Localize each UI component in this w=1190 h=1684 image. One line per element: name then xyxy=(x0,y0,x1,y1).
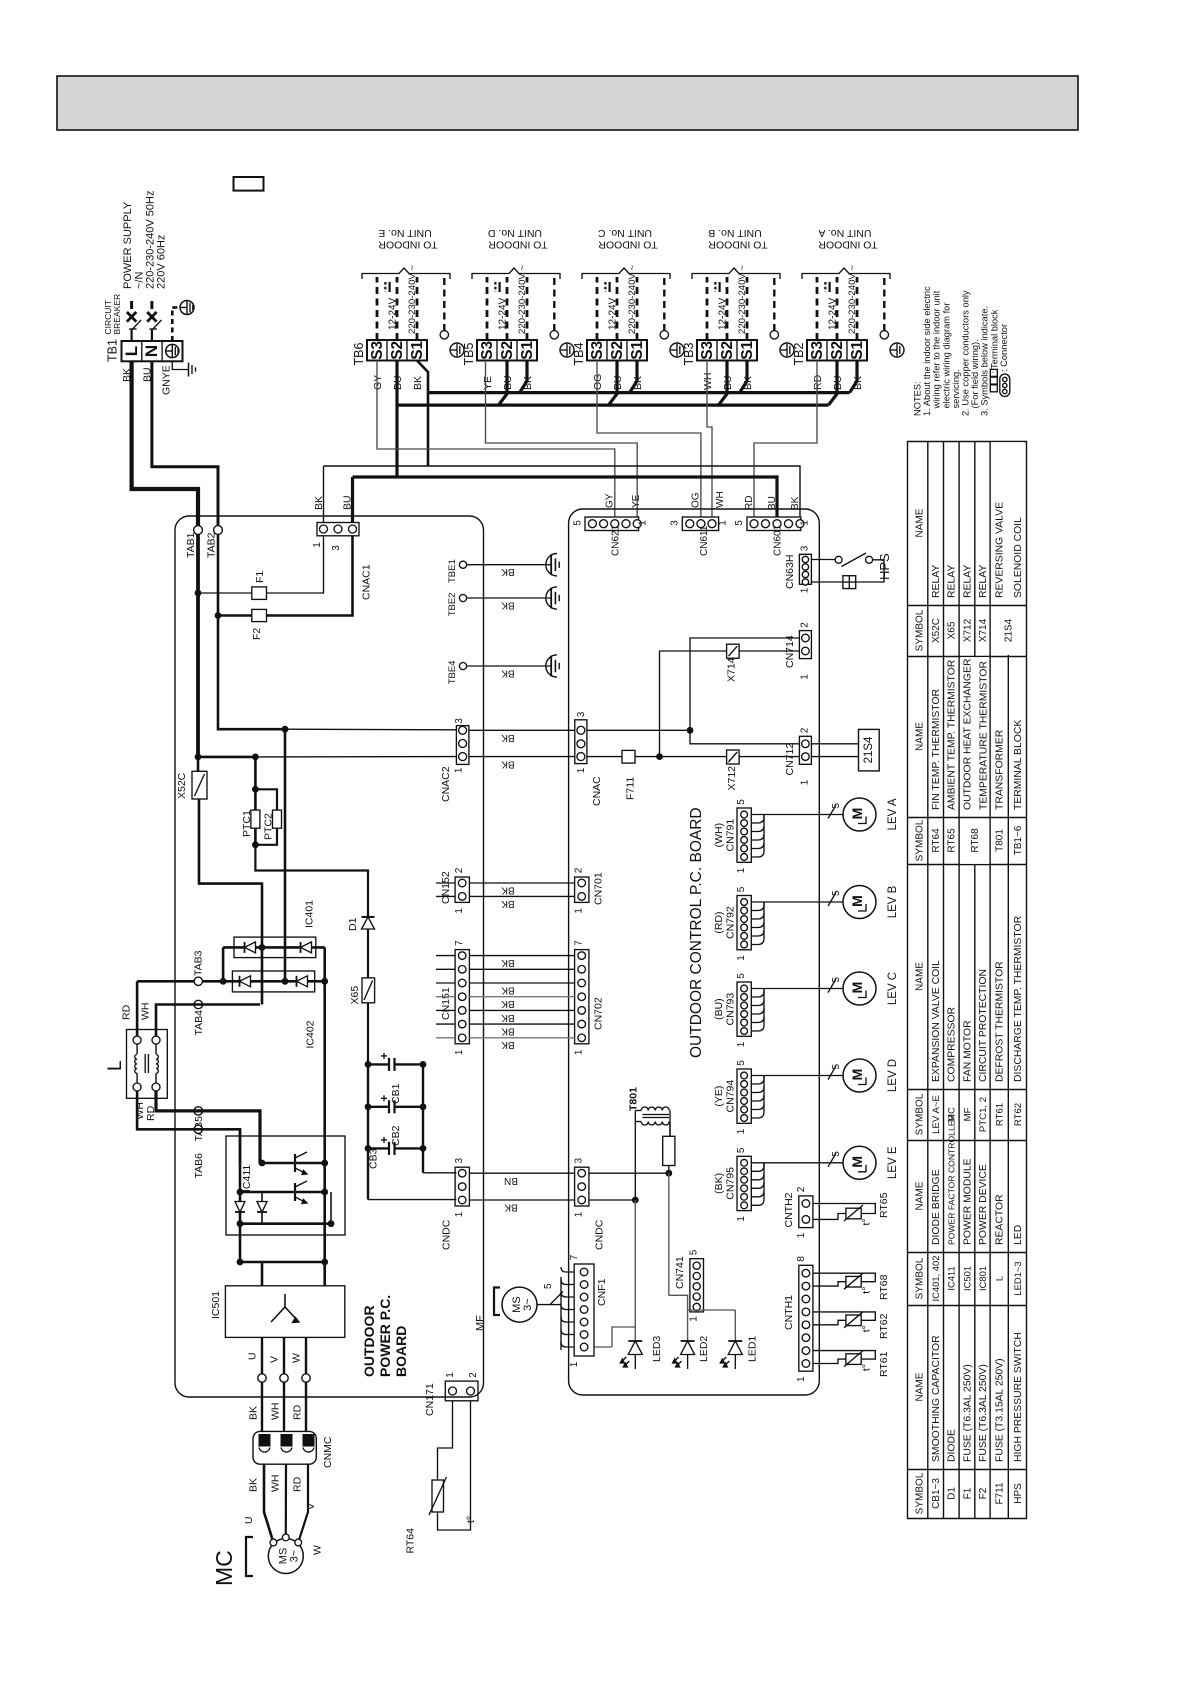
svg-text:RT62: RT62 xyxy=(1013,1103,1024,1126)
svg-text:OG: OG xyxy=(691,492,702,508)
svg-text:IC501: IC501 xyxy=(961,1266,972,1291)
svg-text:CN151: CN151 xyxy=(440,987,452,1020)
svg-text:LEV D: LEV D xyxy=(887,1059,899,1092)
svg-text:BK: BK xyxy=(121,368,133,382)
svg-text:LEV B: LEV B xyxy=(887,885,899,918)
svg-text:SYMBOL: SYMBOL xyxy=(915,1472,926,1514)
svg-text:S1: S1 xyxy=(849,340,866,359)
svg-text:BK: BK xyxy=(504,1201,518,1212)
svg-text:t°: t° xyxy=(861,1325,873,1332)
svg-text:TB5: TB5 xyxy=(462,343,476,366)
svg-text:IC402: IC402 xyxy=(305,1020,317,1048)
svg-text:OUTDOOR: OUTDOOR xyxy=(361,1305,377,1377)
svg-text:TBE2: TBE2 xyxy=(447,593,458,617)
svg-text:5: 5 xyxy=(831,977,842,983)
svg-text:220-230-240V ~: 220-230-240V ~ xyxy=(517,265,528,334)
svg-text:S1: S1 xyxy=(409,340,426,359)
svg-text:CNMC: CNMC xyxy=(322,1436,334,1468)
svg-text:21S4: 21S4 xyxy=(1004,618,1015,642)
svg-text:RELAY: RELAY xyxy=(962,565,973,598)
svg-text:220-230-240V ~: 220-230-240V ~ xyxy=(847,265,858,334)
svg-text:RT64: RT64 xyxy=(931,828,942,853)
svg-text:BK: BK xyxy=(501,1039,515,1050)
svg-text:RT62: RT62 xyxy=(878,1313,890,1339)
svg-text:TAB1: TAB1 xyxy=(185,532,197,558)
svg-text:NAME: NAME xyxy=(915,1181,926,1210)
svg-text:X52C: X52C xyxy=(176,772,188,799)
svg-text:BK: BK xyxy=(501,984,515,995)
svg-text:RT65: RT65 xyxy=(878,1192,890,1218)
svg-text:MF: MF xyxy=(962,1107,973,1121)
svg-text:: Terminal block: : Terminal block xyxy=(989,309,999,374)
svg-text:1: 1 xyxy=(736,867,747,873)
svg-text:SYMBOL: SYMBOL xyxy=(915,819,926,861)
svg-text:RELAY: RELAY xyxy=(931,565,942,598)
svg-text:1: 1 xyxy=(736,1128,747,1134)
svg-text:CIRCUIT PROTECTION: CIRCUIT PROTECTION xyxy=(978,969,989,1082)
svg-text:7: 7 xyxy=(574,940,585,946)
svg-text:5: 5 xyxy=(831,890,842,896)
svg-text:2: 2 xyxy=(468,1372,479,1378)
svg-text:1: 1 xyxy=(800,587,811,593)
svg-text:1: 1 xyxy=(800,779,811,785)
svg-text:CNF1: CNF1 xyxy=(596,1278,608,1306)
svg-text:U: U xyxy=(247,1352,259,1360)
svg-text:F1: F1 xyxy=(962,1487,973,1499)
svg-text:S2: S2 xyxy=(719,341,736,360)
svg-text:t°: t° xyxy=(861,1364,873,1371)
svg-text:BK: BK xyxy=(248,1478,260,1492)
svg-text:X712: X712 xyxy=(726,766,738,791)
svg-text:SMOOTHING CAPACITOR: SMOOTHING CAPACITOR xyxy=(931,1335,942,1462)
svg-text:RELAY: RELAY xyxy=(978,565,989,598)
svg-text:t°: t° xyxy=(861,1287,873,1294)
svg-text:1: 1 xyxy=(574,1211,585,1217)
svg-text:1: 1 xyxy=(800,674,811,680)
svg-text:SYMBOL: SYMBOL xyxy=(915,609,926,651)
svg-text:F711: F711 xyxy=(995,1482,1006,1504)
svg-text:220-230-240V ~: 220-230-240V ~ xyxy=(737,265,748,334)
svg-text:GNYE: GNYE xyxy=(161,365,173,395)
svg-text:IC411: IC411 xyxy=(946,1266,957,1290)
svg-text:PTC1: PTC1 xyxy=(241,810,253,837)
svg-text:RT68: RT68 xyxy=(970,828,981,853)
svg-text:FIN TEMP. THERMISTOR: FIN TEMP. THERMISTOR xyxy=(931,688,942,810)
svg-text:LED1: LED1 xyxy=(747,1336,759,1362)
svg-text:3: 3 xyxy=(670,520,681,526)
svg-text:NAME: NAME xyxy=(915,508,926,537)
svg-text:X712: X712 xyxy=(962,618,973,642)
svg-text:TB2: TB2 xyxy=(792,343,806,366)
svg-text:CNTH1: CNTH1 xyxy=(783,1295,795,1330)
svg-text:RD: RD xyxy=(812,374,824,390)
svg-text:TB1~6: TB1~6 xyxy=(1013,825,1024,855)
svg-text:CB3: CB3 xyxy=(368,1148,380,1169)
svg-text:TAB2: TAB2 xyxy=(206,532,218,558)
svg-text:CN792: CN792 xyxy=(725,906,737,939)
svg-text:BK: BK xyxy=(501,599,515,610)
svg-text:servicing.: servicing. xyxy=(951,369,961,408)
svg-text:3. Symbols below indicate.: 3. Symbols below indicate. xyxy=(980,306,990,416)
svg-text:S1: S1 xyxy=(519,340,536,359)
svg-text:WH: WH xyxy=(702,373,714,391)
svg-text:220-230-240V ~: 220-230-240V ~ xyxy=(627,265,638,334)
svg-text:3: 3 xyxy=(800,545,811,551)
svg-text:2. Use copper conductors only: 2. Use copper conductors only xyxy=(961,290,971,416)
svg-text:TO INDOOR: TO INDOOR xyxy=(488,239,548,251)
svg-text:CN793: CN793 xyxy=(725,993,737,1026)
svg-text:(For field wiring).: (For field wiring). xyxy=(970,339,980,408)
svg-text:LED3: LED3 xyxy=(651,1336,663,1362)
svg-text:DIODE BRIDGE: DIODE BRIDGE xyxy=(931,1169,942,1245)
svg-text:2: 2 xyxy=(574,867,585,873)
svg-text:V: V xyxy=(269,1356,281,1363)
svg-text:RD: RD xyxy=(744,496,755,510)
svg-text:TB4: TB4 xyxy=(572,343,586,366)
svg-text:3: 3 xyxy=(454,718,465,724)
svg-text:1: 1 xyxy=(796,1376,807,1382)
svg-text:NAME: NAME xyxy=(915,962,926,991)
svg-text:BU: BU xyxy=(142,367,154,382)
svg-text:S3: S3 xyxy=(699,340,716,359)
svg-text:BU: BU xyxy=(767,496,778,510)
svg-text:CNDC: CNDC xyxy=(441,1219,453,1250)
svg-text:S1: S1 xyxy=(629,340,646,359)
svg-text:X714: X714 xyxy=(978,618,989,642)
svg-text:PTC1, 2: PTC1, 2 xyxy=(978,1097,989,1132)
svg-text:2: 2 xyxy=(800,727,811,733)
svg-text:12-24V: 12-24V xyxy=(497,297,508,330)
svg-text:1: 1 xyxy=(796,1232,807,1238)
svg-text:F2: F2 xyxy=(251,628,263,640)
svg-text:IC501: IC501 xyxy=(210,1291,222,1319)
svg-text:RELAY: RELAY xyxy=(947,565,958,598)
svg-text:CNDC: CNDC xyxy=(594,1219,606,1250)
svg-text:S1: S1 xyxy=(739,340,756,359)
svg-text:: Connector: : Connector xyxy=(999,324,1009,372)
svg-text:TAB6: TAB6 xyxy=(193,1153,205,1179)
svg-text:F711: F711 xyxy=(625,777,637,800)
svg-text:RT68: RT68 xyxy=(878,1274,890,1300)
svg-text:PTC2: PTC2 xyxy=(263,813,275,840)
svg-text:RT64: RT64 xyxy=(405,1528,417,1554)
svg-text:X65: X65 xyxy=(349,986,361,1005)
svg-text:BK: BK xyxy=(501,957,515,968)
svg-text:REACTOR: REACTOR xyxy=(995,1194,1006,1245)
svg-text:LEV E: LEV E xyxy=(887,1146,899,1179)
svg-text:GY: GY xyxy=(605,493,616,508)
svg-text:3~: 3~ xyxy=(289,1550,301,1563)
svg-text:1: 1 xyxy=(454,767,465,773)
svg-text:UNIT No. D: UNIT No. D xyxy=(488,227,542,239)
svg-text:DIODE: DIODE xyxy=(947,1429,958,1462)
svg-text:1: 1 xyxy=(445,1372,456,1378)
svg-text:HPS: HPS xyxy=(1013,1483,1024,1504)
svg-text:12-24V: 12-24V xyxy=(717,297,728,330)
svg-text:S3: S3 xyxy=(369,340,386,359)
svg-text:BK: BK xyxy=(501,667,515,678)
svg-text:POWER P.C.: POWER P.C. xyxy=(377,1295,393,1377)
svg-text:BN: BN xyxy=(504,1175,518,1186)
svg-text:BK: BK xyxy=(501,998,515,1009)
svg-text:T801: T801 xyxy=(995,829,1006,852)
svg-text:5: 5 xyxy=(831,1064,842,1070)
svg-text:5: 5 xyxy=(736,886,747,892)
svg-text:DEFROST THERMISTOR: DEFROST THERMISTOR xyxy=(995,961,1006,1082)
svg-text:M: M xyxy=(849,982,865,994)
svg-text:UNIT No. C: UNIT No. C xyxy=(598,227,652,239)
svg-text:3: 3 xyxy=(454,1157,465,1163)
svg-text:MF: MF xyxy=(475,1315,487,1331)
svg-text:S2: S2 xyxy=(609,341,626,360)
svg-text:IC801: IC801 xyxy=(977,1266,988,1291)
svg-text:5: 5 xyxy=(543,1283,554,1289)
svg-text:W: W xyxy=(312,1545,324,1555)
svg-text:REVERSING VALVE: REVERSING VALVE xyxy=(995,502,1006,598)
svg-text:12-24V: 12-24V xyxy=(387,297,398,330)
svg-text:FUSE (T6.3AL 250V): FUSE (T6.3AL 250V) xyxy=(962,1364,973,1462)
svg-text:S3: S3 xyxy=(809,340,826,359)
svg-text:TO INDOOR: TO INDOOR xyxy=(598,239,658,251)
svg-text:GY: GY xyxy=(372,375,384,390)
svg-text:1: 1 xyxy=(576,767,587,773)
svg-text:FUSE (T3.15AL 250V): FUSE (T3.15AL 250V) xyxy=(995,1358,1006,1462)
svg-text:CN702: CN702 xyxy=(593,997,605,1030)
svg-text:TB1: TB1 xyxy=(106,339,120,362)
svg-text:BREAKER: BREAKER xyxy=(112,294,122,335)
svg-text:LED: LED xyxy=(1013,1225,1024,1245)
svg-text:IC411: IC411 xyxy=(241,1165,253,1192)
svg-text:1: 1 xyxy=(718,520,729,526)
svg-text:BOARD: BOARD xyxy=(393,1326,409,1377)
svg-text:7: 7 xyxy=(569,1254,580,1260)
svg-text:RD: RD xyxy=(145,1105,157,1121)
svg-text:CN701: CN701 xyxy=(593,872,605,905)
svg-text:5: 5 xyxy=(689,1249,700,1255)
svg-text:RD: RD xyxy=(292,1404,304,1420)
svg-text:t°: t° xyxy=(861,1218,873,1225)
svg-text:5: 5 xyxy=(831,1151,842,1157)
svg-text:2: 2 xyxy=(800,622,811,628)
svg-text:12-24V: 12-24V xyxy=(607,297,618,330)
svg-text:WH: WH xyxy=(140,1003,152,1021)
svg-text:BU: BU xyxy=(342,495,354,510)
svg-text:5: 5 xyxy=(736,973,747,979)
svg-text:(BK): (BK) xyxy=(713,1173,725,1194)
svg-text:5: 5 xyxy=(734,520,745,526)
svg-text:IC401: IC401 xyxy=(304,900,316,928)
svg-text:CN611: CN611 xyxy=(699,525,710,556)
svg-text:D1: D1 xyxy=(947,1487,958,1500)
svg-text:2: 2 xyxy=(454,867,465,873)
svg-text:21S4: 21S4 xyxy=(863,736,875,763)
svg-text:L: L xyxy=(122,346,141,356)
svg-text:X65: X65 xyxy=(947,621,958,639)
svg-text:POWER SUPPLY: POWER SUPPLY xyxy=(122,201,134,289)
svg-text:NOTES:: NOTES: xyxy=(913,381,923,416)
svg-text:BK: BK xyxy=(501,566,515,577)
svg-text:NAME: NAME xyxy=(915,722,926,751)
svg-text:DISCHARGE TEMP. THERMISTOR: DISCHARGE TEMP. THERMISTOR xyxy=(1013,915,1024,1082)
svg-text:1: 1 xyxy=(638,520,649,526)
svg-text:V: V xyxy=(305,1503,317,1510)
svg-text:M: M xyxy=(849,1156,865,1168)
svg-text:1: 1 xyxy=(569,1361,580,1367)
svg-text:BK: BK xyxy=(501,884,515,895)
svg-text:12-24V: 12-24V xyxy=(827,297,838,330)
svg-text:CN791: CN791 xyxy=(725,819,737,852)
svg-text:RT65: RT65 xyxy=(947,828,958,853)
svg-text:L: L xyxy=(105,1060,126,1071)
svg-text:CN741: CN741 xyxy=(674,1256,686,1289)
svg-text:S2: S2 xyxy=(389,341,406,360)
svg-text:wiring refer to the indoor uni: wiring refer to the indoor unit xyxy=(932,290,942,409)
svg-text:OUTDOOR HEAT EXCHANGER: OUTDOOR HEAT EXCHANGER xyxy=(963,658,974,810)
svg-text:3: 3 xyxy=(576,711,587,717)
svg-text:EXPANSION VALVE COIL: EXPANSION VALVE COIL xyxy=(931,960,942,1082)
svg-text:BK: BK xyxy=(501,1025,515,1036)
svg-text:CN601: CN601 xyxy=(773,524,784,556)
svg-text:CNAC1: CNAC1 xyxy=(361,564,373,600)
svg-text:RD: RD xyxy=(292,1476,304,1492)
svg-text:X52C: X52C xyxy=(931,618,942,643)
svg-text:8: 8 xyxy=(796,1256,807,1262)
svg-text:CB1: CB1 xyxy=(390,1083,402,1104)
svg-text:3~: 3~ xyxy=(522,1298,534,1311)
svg-text:TBE1: TBE1 xyxy=(447,559,458,583)
svg-text:220V 60Hz: 220V 60Hz xyxy=(156,235,168,289)
svg-text:S2: S2 xyxy=(499,341,516,360)
svg-text:BK: BK xyxy=(501,1012,515,1023)
svg-text:TO INDOOR: TO INDOOR xyxy=(378,239,438,251)
svg-text:CN712: CN712 xyxy=(784,743,796,776)
svg-text:FAN MOTOR: FAN MOTOR xyxy=(962,1020,973,1082)
svg-text:UNIT No. B: UNIT No. B xyxy=(708,227,761,239)
svg-text:SYMBOL: SYMBOL xyxy=(915,1093,926,1135)
svg-text:F1: F1 xyxy=(254,571,266,583)
svg-text:RT61: RT61 xyxy=(878,1351,890,1377)
svg-text:UNIT No. A: UNIT No. A xyxy=(819,227,872,239)
svg-text:2: 2 xyxy=(796,1186,807,1192)
svg-text:X714: X714 xyxy=(726,657,738,682)
svg-text:1: 1 xyxy=(736,1041,747,1047)
svg-text:1. About the indoor side elect: 1. About the indoor side electric xyxy=(922,286,932,416)
svg-text:1: 1 xyxy=(689,1316,700,1322)
svg-text:LEV C: LEV C xyxy=(887,972,899,1005)
svg-text:OG: OG xyxy=(592,374,604,390)
svg-text:W: W xyxy=(291,1353,303,1363)
svg-text:M: M xyxy=(849,808,865,820)
svg-text:1: 1 xyxy=(574,908,585,914)
svg-text:TEMPERATURE THERMISTOR: TEMPERATURE THERMISTOR xyxy=(978,661,989,810)
svg-text:N: N xyxy=(142,345,161,357)
svg-text:5: 5 xyxy=(736,799,747,805)
svg-text:1: 1 xyxy=(800,520,811,526)
svg-text:(BU): (BU) xyxy=(713,998,725,1020)
svg-text:1: 1 xyxy=(574,1049,585,1055)
svg-text:1: 1 xyxy=(454,908,465,914)
svg-text:OUTDOOR CONTROL P.C. BOARD: OUTDOOR CONTROL P.C. BOARD xyxy=(688,807,705,1058)
svg-text:TRANSFORMER: TRANSFORMER xyxy=(995,729,1006,810)
svg-text:CN621: CN621 xyxy=(611,524,622,556)
svg-text:WH: WH xyxy=(270,1403,282,1421)
svg-text:UNIT No. E: UNIT No. E xyxy=(378,227,431,239)
svg-text:(YE): (YE) xyxy=(713,1086,725,1107)
svg-text:WH: WH xyxy=(715,491,726,508)
svg-text:TAB3: TAB3 xyxy=(193,950,205,976)
svg-text:BK: BK xyxy=(412,376,424,390)
svg-text:5: 5 xyxy=(736,1147,747,1153)
svg-text:(WH): (WH) xyxy=(713,823,725,848)
svg-text:CNAC2: CNAC2 xyxy=(440,766,452,802)
svg-text:HIGH PRESSURE SWITCH: HIGH PRESSURE SWITCH xyxy=(1013,1332,1024,1462)
svg-text:RD: RD xyxy=(121,1004,133,1020)
svg-text:LEV A: LEV A xyxy=(887,798,899,830)
svg-text:(RD): (RD) xyxy=(713,912,725,934)
svg-text:1: 1 xyxy=(736,955,747,961)
svg-text:1: 1 xyxy=(454,1049,465,1055)
svg-text:LED2: LED2 xyxy=(698,1336,710,1362)
svg-text:U: U xyxy=(243,1516,255,1524)
svg-text:M: M xyxy=(849,895,865,907)
svg-text:S2: S2 xyxy=(829,341,846,360)
svg-text:MC: MC xyxy=(947,1107,958,1122)
svg-text:CN794: CN794 xyxy=(725,1080,737,1113)
svg-text:TBE4: TBE4 xyxy=(447,661,458,685)
svg-text:YE: YE xyxy=(631,494,642,508)
svg-text:CN171: CN171 xyxy=(424,1383,436,1416)
svg-text:S3: S3 xyxy=(479,340,496,359)
svg-text:CB2: CB2 xyxy=(390,1125,402,1146)
svg-text:BK: BK xyxy=(313,496,325,510)
svg-text:TERMINAL BLOCK: TERMINAL BLOCK xyxy=(1013,720,1024,810)
svg-text:S3: S3 xyxy=(589,340,606,359)
svg-text:7: 7 xyxy=(454,940,465,946)
svg-text:3: 3 xyxy=(574,1157,585,1163)
svg-text:SYMBOL: SYMBOL xyxy=(915,1257,926,1299)
svg-text:TAB4: TAB4 xyxy=(193,1010,205,1036)
svg-text:BK: BK xyxy=(501,732,515,743)
svg-text:LED1~3: LED1~3 xyxy=(1012,1261,1023,1295)
svg-text:3: 3 xyxy=(331,545,342,551)
svg-text:5: 5 xyxy=(573,520,584,526)
svg-text:t°: t° xyxy=(465,1516,477,1523)
svg-text:POWER MODULE: POWER MODULE xyxy=(962,1158,973,1245)
svg-text:CNAC: CNAC xyxy=(591,776,603,806)
svg-text:T801: T801 xyxy=(628,1087,640,1111)
svg-text:COMPRESSOR: COMPRESSOR xyxy=(947,1006,958,1082)
svg-text:AMBIENT TEMP. THERMISTOR: AMBIENT TEMP. THERMISTOR xyxy=(947,659,958,810)
svg-text:1: 1 xyxy=(454,1211,465,1217)
svg-text:SOLENOID COIL: SOLENOID COIL xyxy=(1013,517,1024,598)
svg-text:1: 1 xyxy=(312,542,323,548)
svg-text:WH: WH xyxy=(270,1475,282,1493)
svg-text:FUSE (T6.3AL 250V): FUSE (T6.3AL 250V) xyxy=(978,1364,989,1462)
svg-text:TO INDOOR: TO INDOOR xyxy=(708,239,768,251)
svg-text:F2: F2 xyxy=(978,1487,989,1499)
svg-text:IC401, 402: IC401, 402 xyxy=(930,1256,941,1302)
svg-text:electric wiring diagram for: electric wiring diagram for xyxy=(941,303,951,409)
svg-text:1: 1 xyxy=(736,1216,747,1222)
svg-text:CN795: CN795 xyxy=(725,1167,737,1200)
svg-text:TO INDOOR: TO INDOOR xyxy=(818,239,878,251)
svg-text:CB1~3: CB1~3 xyxy=(931,1478,942,1509)
svg-text:POWER FACTOR CONTROLLER: POWER FACTOR CONTROLLER xyxy=(947,1114,957,1245)
svg-text:CN714: CN714 xyxy=(784,635,796,668)
svg-text:MC: MC xyxy=(211,1550,237,1586)
svg-text:BK: BK xyxy=(790,496,801,510)
svg-text:L: L xyxy=(994,1276,1005,1281)
